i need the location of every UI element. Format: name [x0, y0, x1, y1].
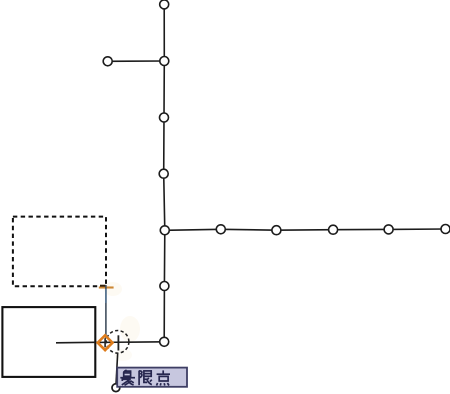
node circle top: [160, 0, 169, 9]
node circle v3: [160, 113, 169, 122]
crosshair vertical tick at circle center: [117, 335, 119, 350]
node circle h2: [216, 225, 225, 234]
node circle v6: [160, 282, 169, 291]
node circle v7 bottom of vertical: [160, 337, 169, 346]
acquired point marker orange plus: [99, 286, 114, 288]
snap point small cross vertical: [104, 338, 106, 347]
tracking line vertical (blue-gray): [105, 285, 107, 339]
dashed rect corner dark dash: [100, 285, 106, 287]
tooltip text: xian (char 2): [139, 371, 152, 386]
wire vertical main polyline: [164, 5, 165, 343]
node circle h3: [272, 226, 281, 235]
wire branch left at y=61: [108, 60, 165, 62]
node circle v4: [159, 169, 168, 178]
faint warm halo artifacts: [120, 316, 140, 342]
tooltip box: [117, 368, 187, 387]
node circle v2: [160, 57, 169, 66]
dashed selection rectangle: [13, 217, 106, 287]
node circle branch end: [103, 57, 112, 66]
node circle h4: [329, 225, 338, 234]
wire crosshair horizontal through rectangle, diamond and circle: [56, 342, 164, 343]
wire inside solid rectangle (crosshair left arm redraw over fill): [56, 341, 95, 344]
node circle junction: [160, 226, 169, 235]
wire from circle bottom down to bottom node: [116, 353, 118, 384]
node circle h5: [384, 225, 393, 234]
tooltip text: xiang (quadrant char 1): [120, 370, 135, 385]
node circle bottom under tooltip: [112, 384, 120, 392]
solid rectangle: [2, 307, 95, 377]
tooltip text: dian (char 3): [157, 370, 171, 385]
wire horizontal main line: [165, 229, 446, 230]
quadrant snap diamond marker: [98, 335, 113, 350]
node circle h6 right edge: [441, 225, 450, 234]
highlighted dashed circle entity: [106, 331, 129, 354]
